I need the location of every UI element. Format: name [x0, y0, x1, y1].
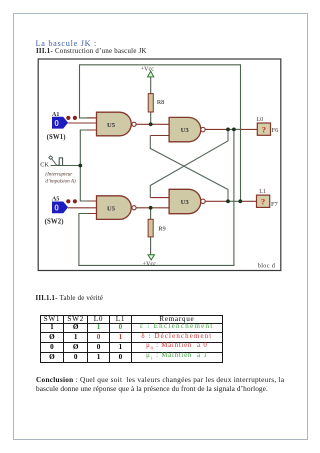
resistor R8 [148, 94, 153, 112]
wire: Qbar output to probe L1 [205, 200, 256, 202]
nand gate U3 top [169, 117, 205, 141]
svg-text:bloc d: bloc d [258, 262, 276, 269]
svg-text:(SW1): (SW1) [47, 134, 66, 141]
wire: cross-couple Q to lower U3 input [150, 129, 228, 197]
state dots A1 [66, 116, 70, 120]
heading III.1 [36, 48, 147, 55]
probe L1 [257, 195, 270, 207]
junction: Qbar cross node [226, 199, 230, 203]
wire: CK horizontal from pulse switch [51, 165, 81, 167]
svg-text:d’impulsion A): d’impulsion A) [45, 178, 76, 185]
conclusion paragraph [36, 375, 284, 384]
svg-text:F6: F6 [272, 127, 279, 134]
junction: R9 node [149, 206, 153, 210]
junction: Q cross node [226, 127, 230, 131]
wire: Q output to probe L0 [205, 128, 257, 130]
svg-text:0: 0 [54, 204, 59, 213]
wire: U5 top output to U3 top input [136, 123, 169, 125]
wire: U5 bottom output to U3 bottom input [136, 207, 169, 209]
wire: Qbar output green segment [228, 200, 240, 202]
svg-text:+Vcc: +Vcc [143, 261, 157, 268]
junction: R8 node [149, 122, 153, 126]
resistor R9 [148, 219, 153, 237]
wire: Vcc to R8 [150, 77, 152, 94]
wire: U5 lower output node to R9 [150, 208, 152, 219]
junction: Q loop node [232, 127, 236, 131]
wire: Q output green segment [228, 128, 241, 130]
wire: R8 to U5 output node [150, 112, 152, 124]
power +Vcc top arrow [148, 71, 154, 77]
svg-text:R8: R8 [157, 99, 164, 106]
svg-text:U5: U5 [107, 205, 116, 212]
wire: R9 to bottom Vcc [150, 237, 152, 256]
svg-text:L1: L1 [259, 189, 266, 195]
nand gate U5 top [97, 112, 137, 136]
svg-text:L0: L0 [257, 117, 264, 123]
switch SW2 digital input A5 [52, 202, 68, 214]
figure frame [38, 59, 281, 271]
svg-text:U3: U3 [181, 199, 190, 206]
svg-text:U3: U3 [181, 127, 190, 134]
wire: CK net vertical between both U5 gates [80, 130, 96, 201]
wire: Q feedback loop (bottom border up to Q output) [79, 129, 234, 265]
svg-text:A5: A5 [52, 197, 59, 203]
power +Vcc bottom arrow [148, 255, 155, 260]
nand gate U3 bottom [169, 189, 205, 213]
svg-text:?: ? [262, 125, 266, 134]
CK pulse switch lever [52, 159, 57, 166]
svg-text:CK: CK [40, 161, 49, 168]
wire: U3 feedback input stubs [150, 136, 169, 198]
junction: Qbar loop node [238, 199, 242, 203]
truth table [40, 315, 223, 363]
switch SW1 digital input A1 [52, 117, 68, 129]
CK pulse symbol [58, 158, 63, 165]
wire: U5 top gate input stubs [68, 118, 96, 130]
heading III.1.1 [36, 295, 104, 302]
svg-text:F7: F7 [271, 201, 279, 208]
probe L0 [257, 123, 270, 135]
svg-text:U5: U5 [107, 122, 116, 129]
wire: U5 bottom gate input stubs [68, 201, 96, 214]
title: La bascule JK [36, 39, 98, 48]
svg-text:(SW2): (SW2) [45, 219, 64, 226]
svg-text:(Interrupteur: (Interrupteur [45, 170, 72, 177]
svg-text:+Vcc: +Vcc [141, 66, 155, 73]
wire: cross-couple Qbar to upper U3 input [150, 136, 228, 202]
svg-text:R9: R9 [158, 226, 165, 233]
wire: Qbar feedback loop (top border + left drop into U5 top input) [80, 65, 241, 202]
svg-text:?: ? [261, 198, 265, 207]
junction: CK node [78, 164, 82, 168]
nand gate U5 bottom [97, 196, 137, 220]
state dots A5 [66, 199, 70, 203]
svg-text:A1: A1 [52, 112, 59, 118]
svg-text:0: 0 [54, 119, 59, 128]
